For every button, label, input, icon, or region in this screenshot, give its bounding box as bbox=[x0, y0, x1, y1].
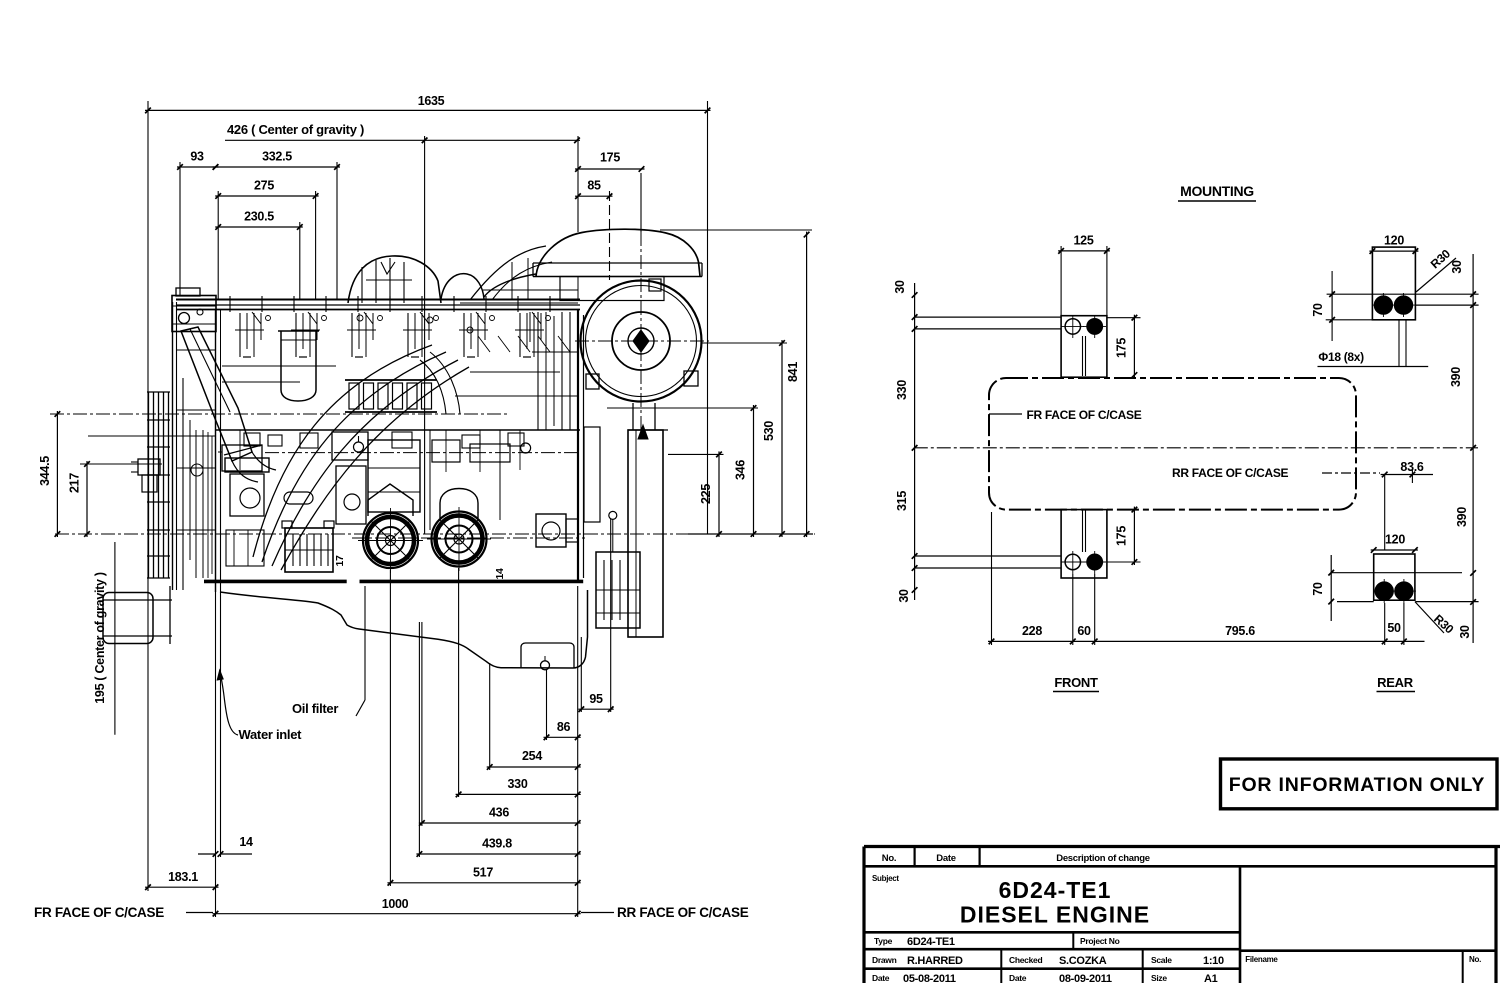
svg-text:Size: Size bbox=[1151, 973, 1167, 983]
svg-text:Date: Date bbox=[1009, 973, 1027, 983]
dimension 95 bbox=[578, 708, 613, 710]
front pulley stack bbox=[148, 392, 150, 578]
vertical dimension 225 bbox=[718, 451, 720, 537]
dimension 120 rear upper bbox=[1369, 250, 1418, 252]
rear mount rail lines lower bbox=[1331, 572, 1462, 574]
small bolt circles along rail bbox=[357, 315, 363, 321]
svg-text:332.5: 332.5 bbox=[262, 150, 292, 164]
extra piping hatch bbox=[478, 336, 490, 352]
rear upper slot bbox=[1398, 320, 1400, 367]
svg-text:14: 14 bbox=[494, 568, 506, 580]
front engine mount foot bbox=[103, 593, 153, 644]
vertical dimension 841 bbox=[806, 232, 808, 537]
flywheel housing ribs bbox=[537, 312, 539, 430]
title block right section bbox=[1239, 866, 1242, 983]
front upper mounting plate bbox=[1061, 316, 1107, 378]
dimension 85 to air cleaner center bbox=[575, 195, 613, 197]
svg-text:175: 175 bbox=[1115, 338, 1129, 358]
dimension 254 bbox=[487, 766, 581, 768]
svg-text:Date: Date bbox=[872, 973, 890, 983]
svg-text:Filename: Filename bbox=[1245, 955, 1278, 964]
injector and pushrod details bbox=[239, 313, 241, 357]
svg-text:S.COZKA: S.COZKA bbox=[1059, 955, 1107, 967]
svg-text:Description of change: Description of change bbox=[1056, 853, 1149, 864]
flywheel housing rear edge bbox=[577, 310, 579, 580]
svg-text:436: 436 bbox=[489, 806, 509, 820]
svg-text:Drawn: Drawn bbox=[872, 955, 897, 965]
cylinder head band outline bbox=[216, 429, 581, 431]
dimension 517 bbox=[387, 882, 580, 884]
svg-text:175: 175 bbox=[600, 151, 620, 165]
svg-text:Scale: Scale bbox=[1151, 955, 1172, 965]
air cleaner throat bbox=[560, 277, 664, 301]
svg-text:70: 70 bbox=[1311, 303, 1325, 317]
vertical dimension 346 bbox=[753, 405, 755, 537]
oil pan drain plug bbox=[541, 661, 550, 670]
svg-text:30: 30 bbox=[893, 280, 907, 294]
title block header row bbox=[864, 865, 1496, 868]
crankcase outline top view bbox=[989, 378, 1356, 510]
svg-text:530: 530 bbox=[762, 421, 776, 441]
FR face of crankcase line bbox=[215, 309, 217, 592]
center of gravity vertical line bbox=[424, 136, 426, 534]
svg-text:120: 120 bbox=[1384, 234, 1404, 248]
starter motor bbox=[536, 514, 566, 547]
governor curves bbox=[420, 360, 446, 414]
dimension 14 bbox=[198, 853, 216, 855]
rear upper bolts bbox=[1374, 296, 1392, 314]
air cleaner turbo circle bbox=[581, 281, 702, 402]
dimension 125 bbox=[1058, 250, 1110, 252]
svg-text:FRONT: FRONT bbox=[1054, 675, 1098, 690]
rear small circle fitting bbox=[609, 511, 617, 519]
svg-text:1:10: 1:10 bbox=[1203, 955, 1224, 967]
svg-text:93: 93 bbox=[190, 150, 204, 164]
dimension 1000 bbox=[213, 913, 581, 915]
rear lower mounting plate bbox=[1374, 554, 1415, 600]
reference line water pump level bbox=[80, 463, 162, 465]
svg-text:95: 95 bbox=[589, 692, 603, 706]
svg-text:No.: No. bbox=[882, 853, 896, 864]
dimension 70 rear upper bbox=[1331, 291, 1333, 323]
svg-text:MOUNTING: MOUNTING bbox=[1180, 183, 1254, 199]
svg-text:1000: 1000 bbox=[382, 897, 409, 911]
oil filter right bracket bbox=[440, 489, 478, 519]
svg-text:RR FACE OF C/CASE: RR FACE OF C/CASE bbox=[1172, 466, 1289, 480]
head mid horizontal bbox=[222, 365, 336, 367]
svg-text:60: 60 bbox=[1077, 624, 1091, 638]
dimension 183.1 bbox=[145, 886, 219, 888]
svg-text:1635: 1635 bbox=[418, 94, 445, 108]
svg-text:14: 14 bbox=[239, 835, 253, 849]
svg-text:841: 841 bbox=[786, 362, 800, 382]
dimension 175 front lower bbox=[1133, 507, 1135, 565]
svg-text:No.: No. bbox=[1469, 955, 1481, 964]
dimension 330 bbox=[456, 793, 581, 795]
svg-text:195 ( Center of gravity ): 195 ( Center of gravity ) bbox=[93, 572, 107, 704]
oil filter left bbox=[363, 513, 418, 568]
svg-text:Subject: Subject bbox=[872, 874, 899, 883]
svg-text:795.6: 795.6 bbox=[1225, 624, 1255, 638]
rear lower bolts bbox=[1375, 582, 1393, 600]
svg-text:390: 390 bbox=[1455, 507, 1469, 527]
reference line camshaft level bbox=[50, 413, 510, 415]
intake manifold hump bbox=[348, 256, 441, 303]
left dimension column 30 330 315 30 bbox=[914, 283, 916, 600]
block centerline bbox=[265, 452, 580, 454]
svg-text:225: 225 bbox=[699, 484, 713, 504]
svg-text:86: 86 bbox=[557, 720, 571, 734]
svg-text:6D24-TE1: 6D24-TE1 bbox=[999, 877, 1112, 903]
svg-text:175: 175 bbox=[1115, 526, 1129, 546]
oil filter right bbox=[432, 512, 487, 567]
radius R30 rear lower bbox=[1415, 602, 1444, 633]
svg-text:50: 50 bbox=[1387, 621, 1401, 635]
svg-text:426 ( Center of gravity ): 426 ( Center of gravity ) bbox=[227, 122, 364, 137]
svg-text:70: 70 bbox=[1311, 582, 1325, 596]
dipstick capsule bbox=[284, 492, 313, 504]
air cleaner dome bbox=[536, 229, 700, 276]
svg-text:Φ18 (8x): Φ18 (8x) bbox=[1318, 350, 1364, 364]
dimension 70 rear lower bbox=[1330, 555, 1332, 621]
front mount rail lines lower bbox=[915, 555, 1062, 557]
svg-text:Type: Type bbox=[874, 936, 893, 946]
water pump parts bbox=[222, 445, 262, 471]
svg-text:Date: Date bbox=[936, 853, 955, 864]
svg-text:17: 17 bbox=[334, 555, 346, 567]
svg-text:Water inlet: Water inlet bbox=[239, 727, 303, 742]
right dimension column 30 390 390 30 bbox=[1472, 254, 1474, 643]
stack neck below turbo bbox=[632, 403, 634, 430]
svg-text:DIESEL ENGINE: DIESEL ENGINE bbox=[960, 902, 1150, 928]
svg-text:330: 330 bbox=[508, 777, 528, 791]
svg-text:R.HARRED: R.HARRED bbox=[907, 955, 963, 967]
title block date row bbox=[864, 967, 1240, 970]
crankcase bottom rail bbox=[204, 580, 347, 584]
water inlet stub bbox=[138, 459, 160, 475]
svg-text:228: 228 bbox=[1022, 624, 1042, 638]
dimension 436 bbox=[419, 822, 581, 824]
svg-text:RR FACE OF C/CASE: RR FACE OF C/CASE bbox=[617, 905, 749, 920]
dimension 86 bbox=[544, 736, 581, 738]
svg-text:183.1: 183.1 bbox=[168, 870, 198, 884]
front lower mounting plate bbox=[1061, 510, 1107, 578]
title block drawn row bbox=[864, 948, 1240, 951]
dimension 344.5 left bbox=[56, 411, 58, 537]
svg-text:330: 330 bbox=[895, 380, 909, 400]
crankshaft centerline bbox=[55, 533, 815, 535]
svg-text:30: 30 bbox=[1458, 625, 1472, 639]
left finned bracket bbox=[285, 528, 333, 572]
dimension 175 front upper bbox=[1133, 315, 1135, 378]
svg-text:125: 125 bbox=[1074, 234, 1094, 248]
pipe sweep to air cleaner bbox=[470, 246, 546, 300]
exhaust outlet stack bbox=[628, 430, 663, 637]
front upper bolts bbox=[1065, 319, 1080, 334]
svg-text:FR FACE OF C/CASE: FR FACE OF C/CASE bbox=[34, 905, 164, 920]
dimension 439.8 bbox=[416, 853, 580, 855]
rear mount rail lines upper bbox=[1327, 293, 1479, 295]
svg-text:Oil filter: Oil filter bbox=[292, 701, 338, 716]
duct lower elbow bbox=[232, 461, 258, 482]
front cover bbox=[172, 302, 174, 590]
svg-text:390: 390 bbox=[1449, 367, 1463, 387]
svg-text:85: 85 bbox=[587, 179, 601, 193]
dimension 426 center of gravity bbox=[225, 139, 580, 141]
title block outer border bbox=[864, 845, 1500, 848]
radius R30 rear upper bbox=[1416, 258, 1456, 292]
svg-text:120: 120 bbox=[1385, 533, 1405, 547]
svg-text:30: 30 bbox=[897, 589, 911, 603]
alternator bbox=[172, 296, 216, 332]
injection pump outlet ladder bbox=[345, 379, 437, 381]
svg-text:344.5: 344.5 bbox=[38, 456, 52, 486]
bottom row extension lines bbox=[991, 512, 993, 645]
svg-text:FOR INFORMATION ONLY: FOR INFORMATION ONLY bbox=[1229, 774, 1486, 796]
svg-text:REAR: REAR bbox=[1377, 675, 1414, 690]
oil filter left bracket bbox=[368, 484, 413, 516]
svg-text:FR FACE OF C/CASE: FR FACE OF C/CASE bbox=[1027, 408, 1142, 422]
for information only box bbox=[1221, 759, 1498, 809]
oil pan drain boss bbox=[521, 643, 574, 668]
turbo centerline arrow bbox=[638, 425, 648, 439]
rear lifting bracket bbox=[596, 552, 640, 628]
dimension 93 bbox=[177, 166, 219, 168]
injection pump body bbox=[332, 432, 368, 460]
circle mounting tabs bbox=[586, 374, 599, 389]
fuel filter cylinder bbox=[281, 331, 316, 401]
dimension 1635 overall length bbox=[145, 109, 711, 111]
front lower bolts bbox=[1065, 554, 1080, 569]
dimension 275 bbox=[215, 195, 318, 197]
exhaust elbow diagonal duct bbox=[181, 327, 252, 461]
svg-text:A1: A1 bbox=[1204, 973, 1218, 983]
dimension 332.5 bbox=[213, 166, 341, 168]
dimension 175 to air cleaner circle center bbox=[575, 168, 645, 170]
injection line arcs bbox=[253, 345, 432, 557]
svg-text:517: 517 bbox=[473, 866, 493, 880]
block small parts row bbox=[244, 433, 260, 446]
block detail right bbox=[432, 440, 460, 462]
svg-text:30: 30 bbox=[1450, 260, 1464, 274]
title block type row bbox=[864, 931, 1240, 934]
svg-text:275: 275 bbox=[254, 179, 274, 193]
mounting view centerline bbox=[914, 447, 1478, 449]
svg-text:08-09-2011: 08-09-2011 bbox=[1059, 973, 1112, 983]
hump internal struts bbox=[361, 267, 363, 303]
svg-text:Checked: Checked bbox=[1009, 955, 1042, 965]
rocker detail ticks bbox=[252, 312, 261, 324]
dimension 230.5 bbox=[215, 226, 303, 228]
oil pan profile bbox=[220, 590, 588, 668]
svg-text:Project No: Project No bbox=[1080, 936, 1120, 946]
front mount rail lines upper bbox=[915, 316, 1062, 318]
rear upper mounting plate bbox=[1372, 247, 1415, 320]
svg-text:346: 346 bbox=[734, 460, 748, 480]
bottom reference line at crank centerline level bbox=[688, 533, 813, 535]
dimension 217 left bbox=[86, 461, 88, 537]
air cleaner flange bbox=[533, 262, 702, 264]
bottom dimension row 228 60 795.6 50 bbox=[988, 640, 1425, 642]
svg-text:6D24-TE1: 6D24-TE1 bbox=[907, 936, 955, 948]
svg-text:254: 254 bbox=[522, 749, 542, 763]
svg-text:230.5: 230.5 bbox=[244, 210, 274, 224]
svg-text:05-08-2011: 05-08-2011 bbox=[903, 973, 956, 983]
vertical dimension 530 bbox=[781, 340, 783, 537]
svg-text:439.8: 439.8 bbox=[482, 837, 512, 851]
valve cover top rail bbox=[176, 299, 580, 301]
svg-text:315: 315 bbox=[895, 491, 909, 511]
svg-text:217: 217 bbox=[68, 473, 82, 493]
filter centerline bbox=[352, 537, 585, 539]
dimension 120 rear lower bbox=[1371, 549, 1418, 551]
